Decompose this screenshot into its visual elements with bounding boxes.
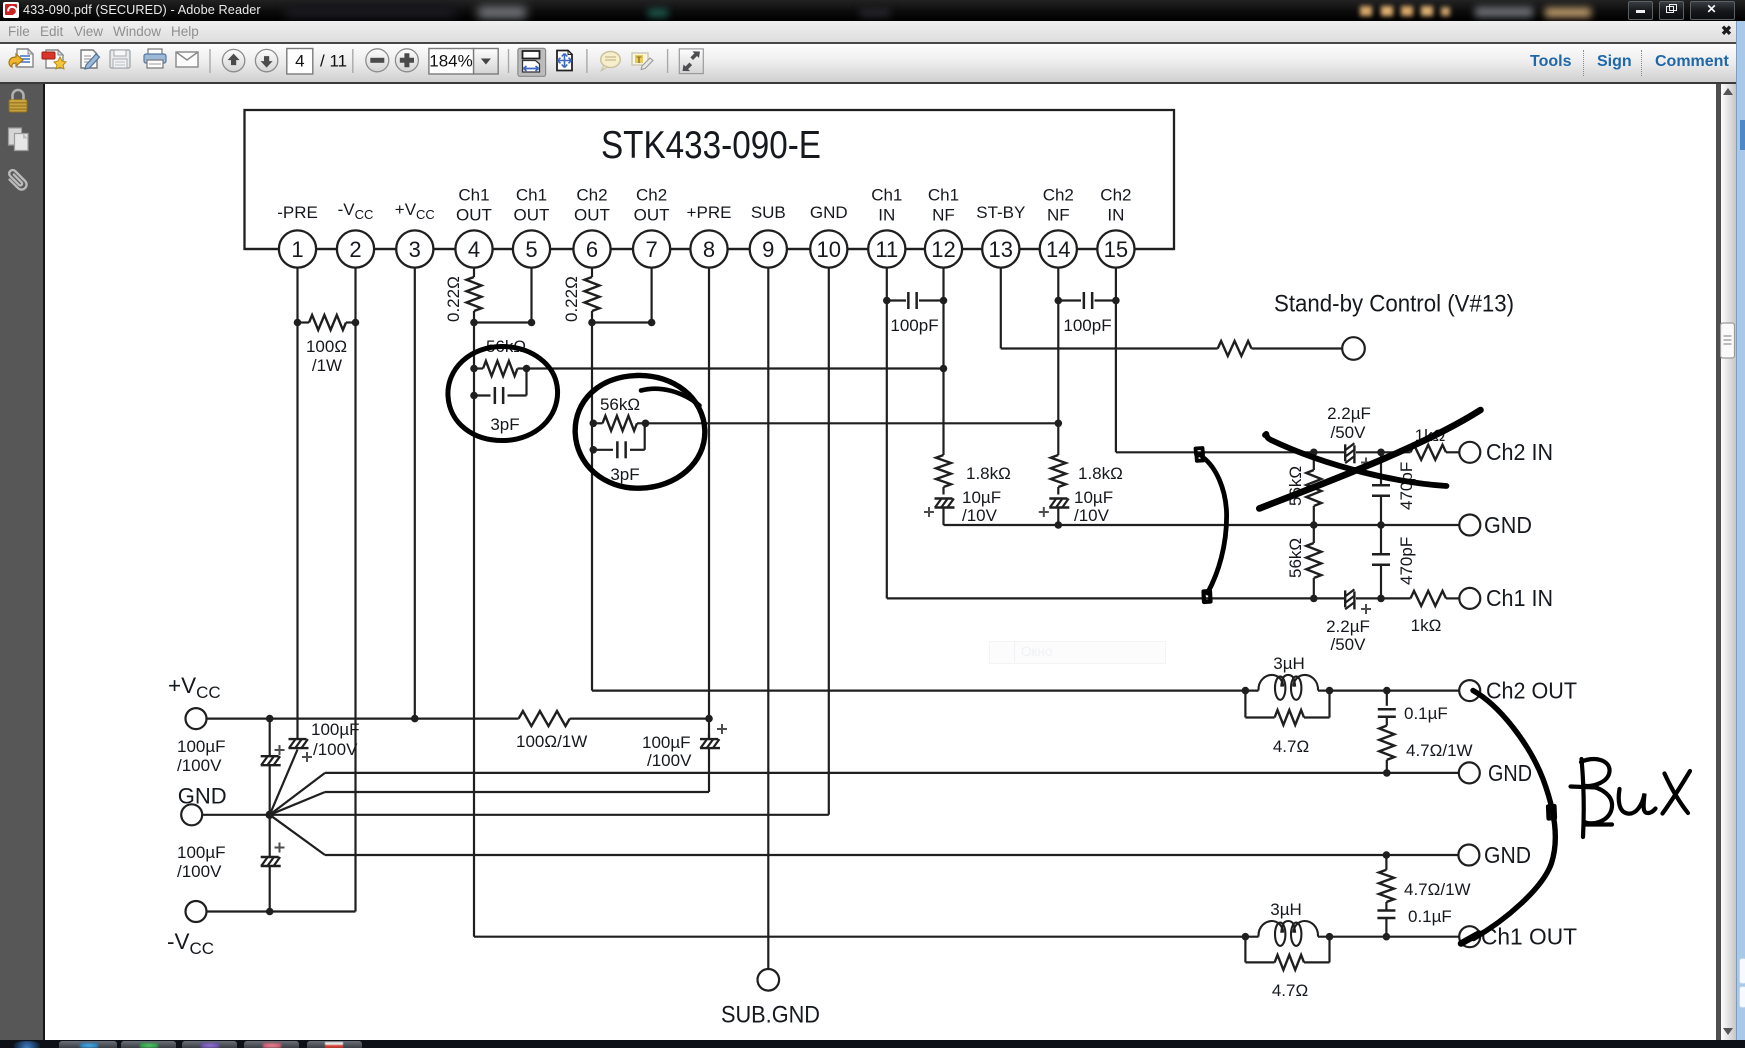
terminal GND (Ch1 filter): [1458, 845, 1479, 866]
handwriting Bux - letter B: [1582, 759, 1584, 837]
hand-drawn circle around 56k/3pF (Ch2): [575, 375, 705, 488]
zoom box: [429, 49, 474, 75]
resistor 1k (Ch2 IN): [1381, 451, 1411, 453]
IC U1 STK433-090-E outline: [245, 110, 1175, 249]
svg-text:2: 2: [349, 237, 361, 262]
svg-text:Ch1 IN: Ch1 IN: [1486, 585, 1553, 611]
wire pin3 vertical to +Vcc rail: [414, 268, 416, 719]
comment bubble: [601, 52, 621, 71]
plus sign 10uF (pin14): [1039, 511, 1049, 513]
wire Ch2 OUT line: [592, 689, 1259, 691]
svg-text:/10V: /10V: [1074, 506, 1110, 525]
resistor 56k (Ch2 IN to GND): [1313, 452, 1315, 470]
svg-text:0.1µF: 0.1µF: [1408, 907, 1452, 926]
svg-text:13: 13: [989, 237, 1013, 262]
wire pin14 vertical to 1.8k resistor: [1057, 268, 1059, 455]
svg-text:/50V: /50V: [1331, 635, 1367, 654]
resistor 1.8k (pin12): [936, 455, 951, 487]
svg-text:2.2µF: 2.2µF: [1327, 404, 1371, 423]
svg-text:/100V: /100V: [177, 862, 222, 881]
svg-text:100µF: 100µF: [311, 720, 360, 739]
svg-text:IN: IN: [878, 206, 895, 225]
capacitor 10uF/10V (pin12): [942, 487, 944, 495]
wire pin15 vertical to Ch2 IN line: [1115, 268, 1117, 453]
svg-text:100µF: 100µF: [642, 733, 691, 752]
wire pin4 vertical upper segment: [473, 268, 475, 277]
plus sign (pin1 cap): [302, 756, 312, 758]
menu bar: [0, 21, 1745, 44]
separator: [667, 49, 669, 73]
svg-text:Ch2 OUT: Ch2 OUT: [1486, 678, 1577, 704]
resistor stand-by 1k: [1218, 341, 1252, 356]
svg-text:4.7Ω: 4.7Ω: [1273, 737, 1309, 756]
terminal Ch1 OUT: [1459, 926, 1480, 947]
terminal Ch2 IN: [1459, 442, 1480, 463]
terminal +Vcc: [186, 708, 207, 729]
svg-text:100pF: 100pF: [1063, 316, 1111, 335]
svg-text:100µF: 100µF: [177, 737, 226, 756]
wire Ch1 GND to terminal: [1386, 854, 1458, 856]
window buttons: [1628, 1, 1653, 20]
svg-text:Ch2: Ch2: [576, 186, 607, 205]
wire 56k to pin14 (Ch2 NF net): [646, 422, 1059, 424]
capacitor 10uF/10V (pin14): [1057, 487, 1059, 495]
resistor 1.8k (pin14): [1051, 455, 1066, 487]
plus sign (pin8 cap): [717, 728, 727, 730]
IC pin circles 1-15: [279, 230, 1135, 267]
lock icon: [9, 90, 27, 112]
terminal GND (Ch2 filter): [1459, 762, 1480, 783]
print icon: [144, 49, 166, 68]
svg-text:SUB.GND: SUB.GND: [721, 1002, 820, 1029]
blue window edge: [1736, 21, 1745, 1040]
edit icon: [81, 50, 100, 69]
svg-text:0.22Ω: 0.22Ω: [562, 276, 581, 322]
hand-drawn knot on long curve: [1548, 806, 1555, 819]
svg-text:Stand-by Control (V#13): Stand-by Control (V#13): [1274, 291, 1514, 318]
svg-text:GND: GND: [1484, 842, 1531, 868]
resistor 4.7ohm/1W (Ch1): [1385, 855, 1387, 870]
svg-text:56kΩ: 56kΩ: [1286, 538, 1305, 578]
capacitor 100pF (pin14-pin15): [1058, 299, 1081, 301]
svg-text:2.2µF: 2.2µF: [1326, 617, 1370, 636]
handwriting Bux - letter x: [1665, 774, 1689, 814]
left sidebar: [0, 84, 45, 1040]
svg-text:Ch2: Ch2: [636, 186, 667, 205]
capacitor 0.1uF (Ch1): [1385, 902, 1387, 910]
capacitor 100uF/100V (pin1 to GND): [296, 734, 298, 740]
hand-drawn tip at Ch1 OUT: [1461, 934, 1479, 944]
svg-text:/100V: /100V: [647, 751, 692, 770]
svg-text:STK433-090-E: STK433-090-E: [601, 124, 821, 167]
svg-text:GND: GND: [810, 203, 848, 222]
svg-text:IN: IN: [1107, 206, 1124, 225]
wire pin4-pin5 tie: [474, 321, 532, 323]
svg-text:10µF: 10µF: [1074, 488, 1113, 507]
wire resistor to stand-by terminal: [1252, 347, 1343, 349]
capacitor 2.2uF/50V (Ch2 IN): [1314, 451, 1345, 453]
wire pin12 vertical to 1.8k resistor: [942, 268, 944, 455]
svg-text:GND: GND: [1484, 512, 1532, 538]
inductor 3uH (Ch2): [1258, 675, 1283, 691]
junction Ch1 IN dots: [1310, 595, 1318, 603]
svg-text:Ch1: Ch1: [516, 186, 547, 205]
resistor 4.7ohm parallel (Ch1): [1244, 937, 1246, 963]
resistor 100ohm/1W (+Vcc rail): [519, 711, 570, 726]
toolbar: [0, 44, 1745, 84]
paperclip icon: [6, 169, 29, 192]
hand-drawn circle around 56k/3pF (Ch1): [448, 346, 558, 440]
capacitor 100pF (pin11-pin12): [887, 299, 906, 301]
wire -Vcc rail: [207, 910, 356, 912]
resistor 1k (Ch1 IN): [1381, 597, 1411, 599]
svg-text:8: 8: [703, 237, 715, 262]
svg-text:Ch2: Ch2: [1043, 186, 1074, 205]
open icon: [9, 49, 33, 67]
resistor 0.22ohm (pin6): [585, 277, 600, 311]
wire node to pin8 cap return: [270, 792, 325, 815]
svg-text:12: 12: [931, 237, 955, 262]
wire pin11 to Ch1 IN network: [887, 597, 1314, 599]
hand-drawn long curve Ch2OUT-to-Ch1OUT: [1473, 691, 1555, 939]
hand-drawn link curve Ch2IN-to-Ch1IN: [1203, 457, 1227, 593]
separator: [508, 49, 510, 73]
terminal stand-by control: [1342, 337, 1365, 360]
svg-text:ST-BY: ST-BY: [976, 203, 1025, 222]
scroll mode (pressed): [518, 48, 546, 76]
svg-text:GND: GND: [1488, 760, 1532, 786]
svg-text:Ch1: Ch1: [458, 186, 489, 205]
node GND star point: [266, 811, 274, 819]
wire pin6 vertical to Ch2 OUT line: [591, 311, 593, 691]
fullscreen icon: [679, 49, 703, 74]
plus sign (-Vcc cap): [275, 847, 285, 849]
terminal SUB.GND: [758, 969, 780, 991]
svg-text:3µH: 3µH: [1270, 900, 1302, 919]
svg-text:14: 14: [1046, 237, 1070, 262]
wire node to pin10: [270, 814, 829, 816]
wire pin9 vertical to SUB.GND: [767, 268, 769, 969]
svg-text:100Ω: 100Ω: [306, 337, 347, 356]
hand-drawn tail stroke (Ch2 circle): [641, 389, 700, 406]
hand-drawn X stroke 1: [1259, 410, 1480, 509]
capacitor 3pF (Ch1): [474, 394, 491, 396]
resistor 56k (Ch1 IN to GND): [1313, 525, 1315, 543]
capacitor 2.2uF/50V (Ch1 IN): [1314, 597, 1345, 599]
svg-text:OUT: OUT: [456, 206, 492, 225]
wire 56k to pin12 (Ch1 NF net): [527, 367, 944, 369]
svg-text:Ch2 IN: Ch2 IN: [1486, 439, 1553, 465]
capacitor 470pF (Ch2 IN): [1380, 452, 1382, 485]
resistor 4.7ohm parallel (Ch2): [1244, 691, 1246, 718]
svg-text:1: 1: [291, 237, 303, 262]
page number box: [287, 49, 313, 75]
svg-text:OUT: OUT: [514, 206, 550, 225]
capacitor 3pF (Ch2): [593, 449, 613, 451]
svg-text:4.7Ω: 4.7Ω: [1272, 981, 1308, 1000]
svg-text:+VCC: +VCC: [395, 200, 435, 222]
plus sign 2.2uF (Ch1 IN): [1361, 608, 1371, 610]
terminal Ch2 OUT: [1459, 680, 1480, 701]
svg-text:+VCC: +VCC: [168, 673, 221, 702]
svg-text:9: 9: [762, 237, 774, 262]
separator: [586, 49, 588, 73]
wire pin4 vertical to Ch1 OUT line: [473, 311, 475, 937]
hand-drawn blob on Ch2 IN wire: [1196, 448, 1204, 461]
svg-text:7: 7: [645, 237, 657, 262]
svg-text:1kΩ: 1kΩ: [1411, 616, 1442, 635]
terminal -Vcc: [186, 901, 207, 922]
fit width: [557, 51, 572, 71]
svg-text:OUT: OUT: [574, 206, 610, 225]
wire GND terminal to node: [202, 814, 270, 816]
wire pin2 vertical to -Vcc rail: [354, 268, 356, 912]
wire GND line (input): [944, 524, 1460, 526]
svg-text:/50V: /50V: [1331, 423, 1367, 442]
blurred smudges in title bar: [285, 5, 455, 18]
resistor 56k (Ch2 feedback): [603, 416, 638, 431]
wire node to Ch2-filter GND line: [270, 773, 325, 815]
plus sign 2.2uF (Ch2 IN): [1361, 462, 1371, 464]
wire pin11 vertical to Ch1 IN line: [886, 268, 888, 599]
scrollbar: [1716, 84, 1721, 1040]
svg-text:4.7Ω/1W: 4.7Ω/1W: [1406, 741, 1473, 760]
svg-text:/10V: /10V: [962, 506, 998, 525]
email icon: [176, 52, 198, 67]
inductor 3uH (Ch1): [1258, 921, 1283, 937]
wire inductor to Ch1 OUT terminal: [1318, 936, 1459, 938]
svg-text:11: 11: [875, 237, 898, 262]
capacitor 100uF/100V (GND to -Vcc): [269, 815, 271, 857]
hand-drawn X stroke 2: [1265, 434, 1447, 486]
plus sign 10uF (pin12): [924, 511, 934, 513]
svg-text:470pF: 470pF: [1397, 537, 1416, 585]
terminal Ch1 IN: [1459, 588, 1480, 609]
svg-text:NF: NF: [1047, 206, 1070, 225]
resistor 56k (Ch1 feedback): [483, 361, 518, 376]
terminal GND (input): [1459, 515, 1480, 536]
title bar: [0, 0, 1745, 21]
capacitor 0.1uF (Ch2): [1386, 691, 1388, 706]
resistor 100ohm/1W between pin1 and pin2: [298, 321, 310, 323]
terminal GND (left): [181, 804, 202, 825]
separator: [352, 49, 354, 73]
svg-text:0.22Ω: 0.22Ω: [444, 276, 463, 322]
svg-text:GND: GND: [178, 784, 227, 809]
svg-text:100pF: 100pF: [890, 316, 938, 335]
pages icon: [9, 128, 29, 151]
save icon (disabled): [110, 50, 130, 68]
page up / down: [222, 49, 244, 71]
svg-text:/100V: /100V: [177, 756, 222, 775]
wire +Vcc rail: [207, 717, 519, 719]
svg-text:-VCC: -VCC: [167, 929, 214, 958]
svg-text:56kΩ: 56kΩ: [600, 395, 640, 414]
svg-text:5: 5: [525, 237, 537, 262]
svg-text:SUB: SUB: [751, 203, 786, 222]
separator: [209, 49, 211, 73]
ghost tooltip: [989, 641, 1166, 664]
resistor 0.22ohm (pin4): [467, 277, 482, 311]
svg-text:3: 3: [409, 237, 421, 262]
create icon: [42, 50, 66, 69]
svg-text:+PRE: +PRE: [687, 203, 732, 222]
svg-text:100Ω/1W: 100Ω/1W: [516, 732, 587, 751]
svg-text:1.8kΩ: 1.8kΩ: [966, 464, 1011, 483]
wire inductor to Ch2 OUT terminal: [1318, 689, 1459, 691]
IC pin top labels: [277, 186, 1131, 225]
svg-text:15: 15: [1104, 237, 1128, 262]
hand-drawn blob on Ch1 IN wire: [1204, 591, 1211, 602]
plus sign (+Vcc cap): [275, 749, 285, 751]
capacitor 470pF (Ch1 IN): [1380, 525, 1382, 554]
svg-text:10µF: 10µF: [962, 488, 1001, 507]
svg-text:Ch2: Ch2: [1100, 186, 1131, 205]
wire pin10 vertical to GND node line: [828, 268, 830, 815]
wire pin13 vertical to stand-by line: [1000, 268, 1002, 349]
wire pin6-pin7 tie: [592, 321, 652, 323]
svg-text:/1W: /1W: [312, 356, 342, 375]
svg-text:4: 4: [468, 237, 480, 262]
svg-text:100µF: 100µF: [177, 843, 226, 862]
wire Ch1 OUT line: [474, 936, 1259, 938]
svg-text:3µH: 3µH: [1273, 654, 1305, 673]
toolbar right text: [1530, 53, 1571, 71]
svg-text:OUT: OUT: [634, 206, 670, 225]
wire pin15 to Ch2 IN network: [1116, 451, 1314, 453]
handwriting Bux - letter u: [1619, 789, 1656, 814]
wire node to Ch1-filter GND line: [270, 815, 325, 855]
wire pin6 vertical upper segment: [591, 268, 593, 277]
taskbar: [0, 1040, 1745, 1048]
svg-text:4.7Ω/1W: 4.7Ω/1W: [1404, 880, 1471, 899]
capacitor 100uF/100V (pin8 +PRE): [708, 734, 710, 740]
svg-text:3pF: 3pF: [610, 465, 639, 484]
svg-text:0.1µF: 0.1µF: [1404, 704, 1448, 723]
svg-text:/100V: /100V: [313, 740, 358, 759]
highlight text icon: [632, 53, 653, 70]
wire pin8 vertical to +Vcc junction: [708, 268, 710, 739]
svg-text:6: 6: [586, 237, 598, 262]
svg-text:470pF: 470pF: [1397, 462, 1416, 510]
wire pin5 vertical: [530, 268, 532, 323]
wire pin13 to stand-by resistor: [1001, 347, 1218, 349]
svg-text:-PRE: -PRE: [277, 203, 318, 222]
svg-text:Ch1: Ch1: [871, 186, 902, 205]
svg-text:1.8kΩ: 1.8kΩ: [1078, 464, 1123, 483]
wire pin1 vertical to 100uF cap: [296, 268, 298, 734]
svg-text:NF: NF: [932, 206, 955, 225]
svg-text:Ch1: Ch1: [928, 186, 959, 205]
wire pin7 vertical: [650, 268, 652, 323]
wire Ch2 GND to terminal: [1387, 772, 1459, 774]
resistor 4.7ohm/1W (Ch2): [1379, 726, 1394, 760]
svg-text:-VCC: -VCC: [338, 200, 374, 222]
junction pin15 net / 56k: [1310, 449, 1318, 457]
capacitor 100uF/100V (+Vcc to GND): [269, 719, 271, 756]
svg-text:3pF: 3pF: [490, 415, 519, 434]
zoom out / in: [366, 49, 389, 72]
svg-text:10: 10: [817, 237, 841, 262]
